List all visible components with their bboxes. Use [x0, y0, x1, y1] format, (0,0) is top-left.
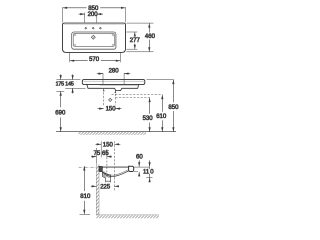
dimension 225	[91, 184, 119, 190]
dimension 690 (underside height)	[55, 91, 66, 131]
side view: sump and drain stub	[102, 172, 110, 183]
svg-text:277: 277	[130, 38, 141, 44]
dimension 150 (side view top)	[96, 141, 121, 157]
svg-text:65: 65	[102, 151, 109, 157]
dimension 280 (fixing points)	[97, 69, 131, 75]
front view: drain dashed line left	[103, 89, 105, 106]
front view: supply dashed level (610)	[112, 94, 163, 96]
front view: drain dashed line right	[114, 90, 116, 105]
side view: floor level extension left	[80, 213, 91, 215]
dimension 175 (rim to underside left)	[56, 74, 81, 91]
svg-text:810: 810	[80, 194, 91, 200]
side view: basin back block	[99, 166, 103, 171]
side view: basin section top surface	[103, 166, 129, 168]
top view: faucet hole right	[99, 27, 102, 30]
front view: floor line	[56, 131, 176, 133]
svg-text:200: 200	[88, 12, 99, 18]
front view: floor hatching	[79, 132, 147, 135]
svg-text:460: 460	[145, 34, 156, 40]
top view: rim inner line	[64, 24, 125, 26]
dimension 850 vertical (rim height)	[147, 80, 180, 132]
dimension 145	[65, 74, 85, 93]
top view: bowl corner circle TL	[74, 34, 76, 36]
svg-text:175: 175	[56, 82, 65, 88]
top view: bowl inner edge	[73, 33, 114, 46]
dimension 460 (top view depth)	[126, 23, 155, 52]
front view: fixing point tick left	[102, 73, 104, 84]
top view: faucet hole left	[84, 27, 87, 30]
side view: bowl curve outer	[102, 171, 128, 177]
dimension 200 (faucet holes)	[79, 12, 104, 22]
dimension 110	[143, 160, 154, 182]
svg-text:850: 850	[168, 105, 179, 111]
top view: basin outer rim	[63, 23, 126, 52]
front view: rim inner line	[84, 80, 145, 82]
svg-text:145: 145	[65, 82, 74, 88]
dimension 610 (supply height)	[156, 95, 167, 132]
front view: basin body underside	[87, 84, 139, 90]
dimension 150 (drain width, front view)	[98, 107, 122, 113]
side view: floor hatching	[96, 215, 159, 218]
side view: bowl curve inner	[103, 170, 128, 175]
top view: bowl corner circle BL	[74, 44, 76, 46]
dimension 277 (bowl depth)	[126, 32, 140, 49]
dimension 65	[102, 149, 112, 173]
svg-text:850: 850	[88, 6, 99, 12]
top view: bowl corner circle BR	[112, 44, 114, 46]
svg-text:690: 690	[55, 110, 66, 116]
front view: drain symbol	[109, 98, 112, 101]
svg-text:225: 225	[100, 184, 111, 190]
dimension 530 (drain height)	[143, 98, 154, 132]
side view: front rim section	[129, 166, 134, 171]
front view: fixing point tick right	[123, 73, 125, 84]
dimension 60	[134, 155, 150, 177]
front view: underside inner line	[100, 85, 138, 87]
svg-text:150: 150	[103, 142, 114, 148]
dimension 75	[91, 148, 101, 164]
svg-text:75: 75	[94, 151, 101, 157]
top view: bowl outer edge	[72, 32, 116, 49]
dimension 850 (top view width)	[63, 6, 126, 23]
side view: drain dashed vertical	[113, 141, 115, 190]
svg-text:11: 11	[143, 170, 150, 176]
top view: faucet hole centre	[92, 27, 95, 30]
svg-text:610: 610	[156, 114, 167, 120]
svg-text:570: 570	[89, 57, 100, 63]
front view: rim slab	[82, 80, 145, 85]
side view: wall hatching	[96, 164, 99, 215]
dimension 570 (bowl width)	[70, 53, 121, 63]
svg-text:60: 60	[136, 155, 143, 161]
svg-text:530: 530	[143, 116, 154, 122]
top view: drain symbol	[91, 35, 95, 39]
front view: drain dashed level (530)	[115, 97, 149, 99]
dimension 810 (rim height side view)	[80, 166, 91, 214]
svg-text:150: 150	[106, 107, 117, 113]
side view: rim top level dashed	[79, 166, 97, 168]
svg-text:280: 280	[109, 69, 120, 75]
side view: floor line	[96, 214, 159, 216]
top view: bowl corner circle TR	[112, 34, 114, 36]
